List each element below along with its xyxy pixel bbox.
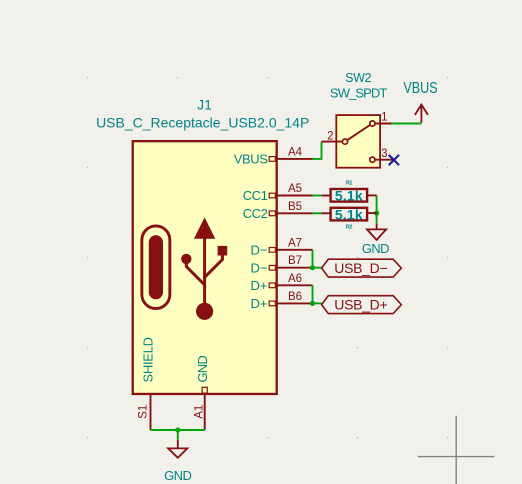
svg-text:A1: A1 [193,405,205,419]
svg-text:D−: D− [251,260,268,275]
svg-text:USB_D+: USB_D+ [334,297,387,313]
svg-text:USB_D−: USB_D− [334,260,387,276]
wire A6 down to B6 [312,285,314,303]
global label USB_D+ [322,296,402,314]
switch lever [347,125,370,140]
wire CC2 to R2 [313,212,322,214]
resistor R1 body [331,189,368,202]
svg-text:5.1k: 5.1k [335,188,363,204]
svg-text:CC1: CC1 [243,188,268,203]
switch pin 1 stub [375,123,392,125]
pin A1 GND [202,387,207,430]
svg-text:SW_SPDT: SW_SPDT [330,86,388,101]
svg-text:A7: A7 [288,237,302,249]
resistor R2 body [331,208,368,221]
switch SW2 body [336,115,380,168]
junction B6 [310,301,315,306]
svg-text:GND: GND [164,468,191,483]
svg-text:D+: D+ [251,278,268,293]
svg-text:3: 3 [381,148,387,160]
USB logo: right branch line [205,254,223,277]
resistor R1 right stub [367,194,377,196]
wire junction to GND bottom [177,430,179,440]
pin A4 VBUS [269,157,312,162]
USB logo: right branch square [218,246,228,256]
wire switch pin1 to VBUS [392,123,422,125]
svg-text:5.1k: 5.1k [335,206,363,222]
svg-text:2: 2 [327,131,333,143]
svg-text:R2: R2 [346,225,352,231]
switch pin 1 circle [370,121,375,126]
svg-text:A6: A6 [288,273,302,285]
wire S1 to A1 bottom [151,429,205,431]
svg-text:SW2: SW2 [345,71,372,85]
wire A4 to switch pin2 [313,142,322,159]
wire CC1 to R1 [313,195,322,197]
pin A5 CC1 [269,193,312,198]
switch pin 2 stub [322,141,343,143]
connector J1 body [133,141,277,394]
USB logo: inner capsule [149,235,163,299]
USB logo: bottom circle [196,303,213,320]
svg-text:D−: D− [251,243,268,258]
cursor crosshair [418,416,495,484]
svg-text:A5: A5 [288,183,302,195]
wire A7 down to B7 [312,250,314,268]
pin A7 D- [269,248,312,253]
junction R2 right [374,211,379,216]
resistor R2 right stub [367,212,377,214]
grid dots [87,77,449,439]
switch pin 3 circle [370,157,375,162]
pin B7 D- [269,265,312,270]
svg-text:CC2: CC2 [243,206,268,221]
resistor R2 left stub [322,212,330,214]
svg-text:B7: B7 [288,255,302,267]
svg-text:R1: R1 [346,181,352,187]
wire B7 to label [313,267,322,269]
svg-text:GND: GND [195,356,210,383]
no-connect X on pin 3 [389,155,399,165]
VBUS power symbol [415,105,428,123]
svg-text:VBUS: VBUS [403,79,437,97]
USB logo: outer capsule [142,226,170,309]
pin B5 CC2 [269,211,312,216]
pin A6 D+ [269,283,312,288]
svg-text:D+: D+ [251,296,268,311]
resistor R1 left stub [322,195,330,197]
switch pin 3 stub [375,159,394,161]
pin B6 D+ [269,301,312,306]
junction bottom GND [175,427,180,432]
svg-text:J1: J1 [197,97,212,113]
GND symbol mid (resistors) [367,224,386,240]
global label USB_D- [322,259,402,277]
USB logo: trident spine [203,236,206,304]
switch pin 2 circle [342,139,347,144]
svg-text:S1: S1 [137,405,149,419]
USB logo: left branch line [186,262,204,285]
USB logo: arrow head [194,217,215,238]
wire R1/R2 right to GND [376,195,378,223]
USB logo: left branch circle [181,254,191,264]
svg-text:GND: GND [362,241,389,256]
junction B7 [310,265,315,270]
svg-text:1: 1 [381,111,387,123]
svg-text:VBUS: VBUS [234,152,269,167]
GND symbol bottom [168,440,187,458]
pin S1 SHIELD [150,394,152,430]
svg-text:SHIELD: SHIELD [141,337,156,382]
svg-text:USB_C_Receptacle_USB2.0_14P: USB_C_Receptacle_USB2.0_14P [96,115,309,131]
svg-text:B5: B5 [288,201,302,213]
wire B6 to label [313,302,322,304]
svg-text:A4: A4 [288,146,303,158]
svg-text:B6: B6 [288,291,302,303]
